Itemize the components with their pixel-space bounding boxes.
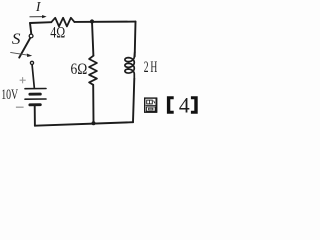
battery B1 plate short minus bbox=[30, 93, 40, 96]
resistor R2 6ohm zigzag bbox=[89, 56, 97, 85]
switch closing motion arrow bbox=[10, 52, 27, 55]
wire right vertical lower bbox=[133, 79, 134, 123]
battery B1 plate short 2 bbox=[30, 103, 40, 106]
svg-text:10V: 10V bbox=[1, 87, 18, 103]
wire bottom bbox=[35, 122, 133, 126]
switch S blade bbox=[19, 38, 30, 58]
wire switch to battery bbox=[32, 65, 34, 88]
svg-text:4: 4 bbox=[179, 93, 190, 118]
wire right vertical upper bbox=[134, 22, 137, 57]
svg-text:S: S bbox=[12, 31, 21, 48]
caption character tu (figure) drawn as strokes bbox=[145, 98, 157, 113]
resistor R1 4ohm zigzag bbox=[51, 18, 74, 27]
caption bracket left bbox=[167, 96, 174, 114]
wire top left segment bbox=[30, 21, 51, 24]
wire middle branch upper bbox=[92, 22, 93, 56]
battery B1 plate long plus bbox=[25, 88, 46, 90]
battery plus sign bbox=[20, 77, 26, 83]
current arrow I bbox=[30, 16, 44, 18]
battery minus sign bbox=[16, 106, 24, 108]
wire battery to bottom corner bbox=[34, 106, 36, 126]
svg-text:6Ω: 6Ω bbox=[71, 61, 88, 78]
wire left drop to switch bbox=[30, 23, 31, 34]
node junction dot top bbox=[90, 19, 94, 23]
wire top right segment bbox=[74, 21, 135, 23]
node junction dot bottom bbox=[92, 121, 96, 125]
switch S terminal bottom circle bbox=[30, 61, 33, 64]
switch S terminal top circle bbox=[29, 34, 33, 38]
wire middle branch lower bbox=[92, 85, 94, 123]
inductor L1 2H coil bbox=[125, 52, 135, 79]
svg-text:4Ω: 4Ω bbox=[50, 25, 65, 42]
svg-text:I: I bbox=[35, 0, 41, 14]
caption bracket right bbox=[191, 96, 198, 114]
svg-text:2 H: 2 H bbox=[144, 57, 158, 76]
battery B1 plate long 2 bbox=[25, 98, 46, 100]
